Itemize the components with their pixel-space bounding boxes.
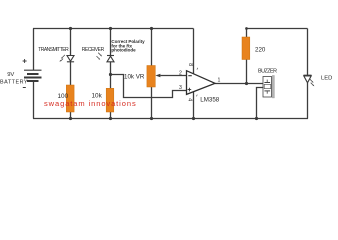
svg-text:4: 4 bbox=[186, 98, 192, 101]
receiver incoming arrows bbox=[97, 53, 103, 60]
svg-text:220: 220 bbox=[255, 46, 266, 53]
plus sign pin3 bbox=[188, 88, 192, 92]
node dot VR top bbox=[150, 27, 153, 30]
node dot receiver junction bbox=[109, 73, 112, 76]
wire battery bottom bbox=[33, 81, 35, 119]
node dot bottom 100 bbox=[69, 117, 72, 120]
wire receiver mid bbox=[110, 62, 112, 89]
minus sign pin2 bbox=[188, 75, 192, 77]
wire bottom rail bbox=[33, 118, 308, 120]
LED transmitter bbox=[67, 56, 74, 62]
resistor 220 bbox=[242, 37, 250, 60]
wire top rail left bbox=[33, 28, 194, 30]
wire pin4 bbox=[193, 92, 195, 119]
junction dots bbox=[69, 27, 258, 120]
wire opamp output bbox=[215, 83, 263, 85]
wire VR top bbox=[151, 29, 153, 66]
node dot bottom buzzer bbox=[255, 117, 258, 120]
wire R220 top lead bbox=[246, 29, 248, 38]
tick mark top bbox=[196, 68, 199, 70]
svg-text:LM358: LM358 bbox=[200, 96, 219, 103]
svg-text:RECEIVER: RECEIVER bbox=[82, 47, 105, 53]
node dot receiver top bbox=[109, 27, 112, 30]
wire VR bottom bbox=[151, 87, 153, 119]
node dot output junction bbox=[245, 82, 248, 85]
preset 10k VR bbox=[147, 66, 155, 88]
wire receiver top bbox=[110, 29, 112, 56]
battery minus sign bbox=[23, 87, 26, 89]
wire transmitter mid bbox=[70, 62, 72, 85]
wire R220 bottom lead bbox=[246, 60, 248, 84]
svg-text:TRANSMITTER: TRANSMITTER bbox=[38, 47, 69, 53]
photodiode receiver bbox=[107, 56, 114, 62]
wire transmitter top bbox=[70, 29, 72, 56]
wire node to pin3 bbox=[111, 75, 187, 98]
wire buzzer ground bbox=[257, 88, 264, 119]
wire LED right top bbox=[307, 29, 309, 76]
buzzer BZ1 bbox=[263, 76, 274, 98]
VR wiper arrowhead bbox=[155, 74, 160, 78]
svg-text:9V: 9V bbox=[7, 72, 14, 78]
wire pin8 bbox=[193, 29, 195, 74]
svg-text:swagatam innovations: swagatam innovations bbox=[44, 99, 137, 108]
wire LED right bottom bbox=[307, 83, 309, 119]
node dot bottom VR bbox=[150, 117, 153, 120]
battery B1 bbox=[24, 70, 42, 81]
resistor 100 bbox=[66, 85, 74, 112]
node dot bottom 10k bbox=[109, 117, 112, 120]
wire top rail right bbox=[247, 28, 308, 30]
wire R 100 bottom lead bbox=[70, 112, 72, 119]
wire R 10k bottom lead bbox=[110, 112, 112, 119]
node dot 220 top bbox=[245, 27, 248, 30]
tick mark bottom bbox=[195, 95, 198, 97]
wire battery top bbox=[33, 29, 35, 71]
svg-text:LED: LED bbox=[321, 76, 332, 82]
node dot transmitter top bbox=[69, 27, 72, 30]
svg-text:2: 2 bbox=[179, 71, 182, 77]
svg-text:10k VR: 10k VR bbox=[124, 74, 145, 81]
svg-text:BATTERY: BATTERY bbox=[0, 80, 28, 86]
text labels group bbox=[0, 39, 332, 103]
wire VR wiper to pin2 bbox=[161, 75, 187, 77]
svg-text:1: 1 bbox=[218, 78, 221, 84]
resistor 10k bbox=[106, 88, 114, 112]
right LED emission arrows bbox=[310, 79, 314, 86]
svg-text:photodiode: photodiode bbox=[111, 48, 136, 53]
svg-text:BUZZER: BUZZER bbox=[258, 69, 277, 75]
svg-text:3: 3 bbox=[179, 85, 182, 91]
battery plus sign bbox=[23, 59, 27, 63]
op-amp U1 LM358 bbox=[187, 71, 216, 95]
node dot bottom pin4 bbox=[192, 117, 195, 120]
svg-text:8: 8 bbox=[187, 63, 193, 66]
LED indicator right bbox=[304, 75, 312, 83]
transmitter emission arrows bbox=[60, 55, 65, 62]
